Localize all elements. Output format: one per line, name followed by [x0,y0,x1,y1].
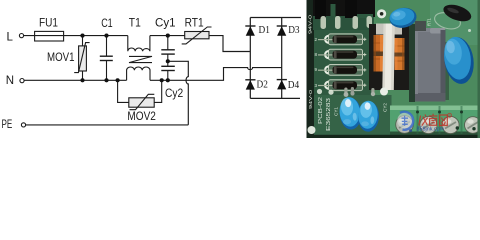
node Cy mid [166,59,170,63]
svg-text:D4: D4 [288,79,300,91]
svg-text:PE: PE [2,119,13,131]
T1 bottom winding [127,67,150,80]
terminal L [7,31,24,43]
pcb left silkscreen texts [308,15,432,131]
svg-text:Cy2: Cy2 [165,88,183,100]
svg-text:94V-0: 94V-0 [308,90,314,109]
pcb relay [415,21,449,102]
capacitor Cy2 [161,61,183,100]
pcb row labels [315,37,318,88]
wire N line left [24,79,126,81]
watermark R mark [448,113,452,118]
node L-C1 [104,34,108,38]
PCB photo [307,0,480,138]
junction dots [80,34,169,83]
T1 top winding [128,36,150,52]
pcb blue cap B2 right [441,35,476,86]
pcb dark left strip [307,0,315,138]
pcb diode rows [318,34,366,91]
transformer T1 (common-mode choke) [127,36,152,81]
svg-text:RT1: RT1 [185,18,204,30]
wire N after T1 with hop over left rail [150,68,282,81]
pcb black diode top-right [441,1,473,24]
watermark logo [397,112,413,132]
T1 core [129,56,152,62]
node N-Cy2 [166,78,170,82]
wire PE line [26,124,189,126]
bridge rails [250,18,301,99]
svg-text:PCB-02: PCB-02 [318,97,324,124]
svg-text:CY2: CY2 [383,103,388,112]
svg-text:D1: D1 [259,24,270,36]
svg-text:D2: D2 [257,79,268,91]
pcb terminal block [390,106,480,136]
svg-text:MOV2: MOV2 [127,111,155,123]
svg-text:FU1: FU1 [39,18,58,30]
node N-MOV2a [116,78,120,82]
fuse FU1 [35,18,64,41]
left rail [249,18,251,99]
pcb blue cap B4 [357,100,380,132]
pcb right edge [478,0,480,138]
node N-C1 [104,78,108,82]
pcb UL logo [308,126,316,134]
bottom rail [250,97,300,99]
pcb top-left black components [313,0,375,17]
right rail [281,18,283,99]
pcb blue cap B1 top [388,6,418,30]
svg-text:94V-0: 94V-0 [308,15,314,34]
pcb board background [307,0,480,138]
pcb component pins [321,16,373,29]
pcb bottom dark band [307,135,480,138]
pcb transformer with orange winding [369,24,409,91]
pcb relay shadow [409,24,415,102]
node N-MOV2b [160,78,164,82]
top rail [250,17,301,19]
pcb cap leads solder [317,89,322,94]
pcb blue cap B3 [339,96,363,130]
pcb silkscreen pad [377,9,386,18]
svg-text:CY1: CY1 [334,107,339,116]
node L-Cy1 [166,34,170,38]
diode D3 [277,24,300,36]
svg-text:E365283: E365283 [326,98,332,131]
varistor MOV1 [47,36,90,81]
wire top after T1 to bridge [150,36,250,52]
svg-text:T1: T1 [129,18,141,30]
svg-text:N: N [6,75,14,87]
watermark text 仪商网 [419,114,448,126]
varistor MOV2 [118,80,162,123]
diode D2 [245,79,268,91]
svg-text:C1: C1 [101,18,113,30]
node N-MOV1 [80,78,84,82]
svg-text:L: L [7,31,14,43]
svg-text:MOV1: MOV1 [47,52,75,64]
capacitor Cy1 [155,18,176,62]
wire Y-cap midpoint to PE with hop over N [168,61,188,125]
pcb silkscreen ellipse top-right [433,10,462,32]
terminal PE [2,119,26,131]
pcb white pad bottom [380,88,388,96]
diode D1 [245,24,270,36]
diode D4 [277,79,300,91]
svg-text:RT1: RT1 [427,17,432,26]
svg-text:D3: D3 [288,24,300,36]
node L-MOV1 [80,34,84,38]
capacitor C1 [100,18,113,80]
svg-text:858jnk.cpm: 858jnk.cpm [417,127,445,133]
wire L line [24,35,128,37]
terminal N [6,75,24,87]
svg-text:Cy1: Cy1 [155,18,176,30]
thermistor RT1 [182,18,212,44]
